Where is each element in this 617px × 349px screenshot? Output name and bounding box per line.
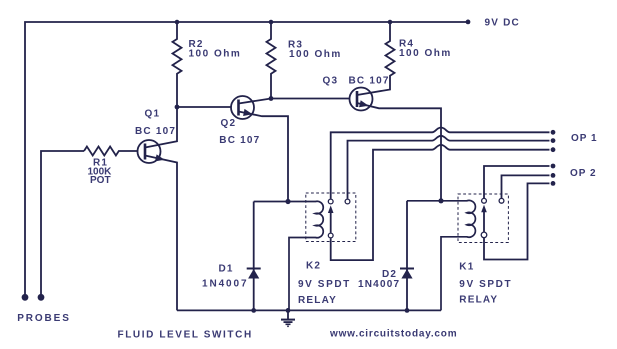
svg-text:PROBES: PROBES xyxy=(17,313,71,324)
svg-text:Q1: Q1 xyxy=(145,109,161,120)
svg-text:OP 1: OP 1 xyxy=(571,133,598,144)
svg-text:RELAY: RELAY xyxy=(298,295,337,306)
svg-text:K2: K2 xyxy=(306,261,321,272)
svg-text:1N4007: 1N4007 xyxy=(358,279,400,290)
svg-text:BC 107: BC 107 xyxy=(349,76,390,87)
svg-text:K1: K1 xyxy=(459,262,474,273)
svg-text:www.circuitstoday.com: www.circuitstoday.com xyxy=(329,328,457,339)
svg-text:9V SPDT: 9V SPDT xyxy=(298,279,351,290)
svg-text:100 Ohm: 100 Ohm xyxy=(189,49,242,60)
svg-text:100 Ohm: 100 Ohm xyxy=(399,48,452,59)
svg-text:9V DC: 9V DC xyxy=(485,18,520,29)
svg-text:POT: POT xyxy=(90,175,111,186)
svg-text:D1: D1 xyxy=(219,264,234,275)
svg-text:9V SPDT: 9V SPDT xyxy=(459,279,512,290)
svg-text:OP 2: OP 2 xyxy=(570,168,597,179)
svg-text:Q2: Q2 xyxy=(221,118,237,129)
svg-text:BC 107: BC 107 xyxy=(135,126,176,137)
svg-text:1N4007: 1N4007 xyxy=(202,279,248,290)
svg-text:100 Ohm: 100 Ohm xyxy=(289,49,342,60)
svg-text:FLUID LEVEL SWITCH: FLUID LEVEL SWITCH xyxy=(118,329,253,340)
svg-text:RELAY: RELAY xyxy=(459,295,498,306)
svg-text:Q3: Q3 xyxy=(323,76,339,87)
svg-text:BC 107: BC 107 xyxy=(219,135,260,146)
